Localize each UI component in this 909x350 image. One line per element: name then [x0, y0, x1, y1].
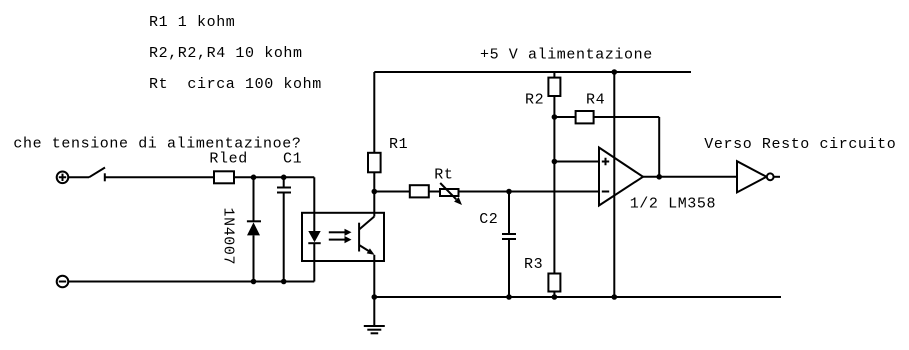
- svg-text:che tensione di alimentazinoe?: che tensione di alimentazinoe?: [13, 136, 301, 153]
- node dot top of C1: [281, 175, 287, 181]
- op-amp plus sign: [602, 158, 609, 165]
- wire R1 to node A: [373, 172, 375, 191]
- buffer U3 triangle: [737, 161, 767, 192]
- wire switch to Rled: [105, 176, 214, 178]
- svg-text:+5 V alimentazione: +5 V alimentazione: [480, 47, 653, 64]
- node A dot: [372, 189, 378, 195]
- terminal - input: [57, 276, 69, 288]
- resistor Rt arrow: [440, 183, 462, 205]
- wire to optocoupler LED anode: [313, 177, 315, 231]
- resistor R2: [548, 72, 560, 117]
- svg-text:R2: R2: [525, 92, 544, 109]
- node dot supply top: [612, 69, 618, 75]
- wire collector to node: [373, 192, 375, 217]
- resistor R4: [554, 111, 659, 177]
- diode D1 branch wire: [253, 177, 255, 221]
- node dot supply bottom: [612, 294, 618, 300]
- wire rail down to R1: [373, 72, 375, 153]
- capacitor C1: [277, 177, 291, 281]
- wire bottom left rail: [68, 281, 314, 283]
- capacitor C2: [502, 192, 516, 298]
- terminal + input: [57, 172, 69, 184]
- svg-text:C2: C2: [479, 211, 498, 228]
- optocoupler light arrow 2: [329, 236, 352, 243]
- svg-text:R3: R3: [524, 256, 543, 273]
- svg-text:R1 1 kohm: R1 1 kohm: [149, 14, 235, 31]
- wire buffer output stub: [774, 176, 780, 178]
- resistor R1: [368, 153, 381, 173]
- op-amp minus sign: [602, 191, 609, 193]
- node dot Rt/C2: [506, 189, 512, 195]
- svg-text:R2,R2,R4 10 kohm: R2,R2,R4 10 kohm: [149, 45, 303, 62]
- svg-text:Rt: Rt: [434, 166, 453, 183]
- node dot plus input: [552, 159, 558, 165]
- node dot bottom of C1: [281, 279, 287, 285]
- node dot R3 bottom: [552, 294, 558, 300]
- switch S1: [68, 168, 105, 182]
- svg-text:Verso Resto circuito: Verso Resto circuito: [704, 136, 896, 153]
- bottom ground rail: [374, 296, 781, 298]
- optocoupler LED: [308, 231, 320, 243]
- buffer inversion bubble: [767, 173, 774, 180]
- node dot C2 bottom: [506, 294, 512, 300]
- diode D1 1N4007: [247, 221, 261, 281]
- svg-text:1/2 LM358: 1/2 LM358: [630, 196, 716, 213]
- svg-text:C1: C1: [283, 151, 302, 168]
- wire op-amp output: [643, 176, 737, 178]
- svg-text:1N4007: 1N4007: [220, 208, 237, 266]
- wire emitter to bottom rail: [373, 255, 375, 297]
- +5V top rail: [374, 71, 691, 73]
- wire op-amp supply vertical: [613, 72, 615, 297]
- resistor Rled: [214, 171, 234, 183]
- resistor Rt fixed box: [410, 185, 429, 197]
- node dot emitter/ground: [372, 294, 378, 300]
- op-amp U1 triangle: [599, 148, 643, 206]
- resistor Rt variable box: [440, 189, 459, 196]
- wire mid vertical R2 to R3: [553, 117, 555, 274]
- node dot bottom of D1: [251, 279, 257, 285]
- svg-text:R1: R1: [389, 136, 408, 153]
- svg-text:R4: R4: [586, 92, 605, 109]
- optocoupler phototransistor Q1: [359, 217, 375, 255]
- node dot top of D1: [251, 175, 257, 181]
- wire to op-amp plus input: [554, 161, 599, 163]
- wire node A to op-amp minus input: [374, 191, 599, 193]
- optocoupler U2 box: [302, 213, 384, 261]
- svg-text:Rt circa 100 kohm: Rt circa 100 kohm: [149, 76, 322, 93]
- optocoupler light arrow 1: [329, 229, 352, 236]
- node dot R2 bottom: [552, 114, 558, 120]
- ground symbol: [364, 297, 385, 333]
- resistor R3: [548, 274, 560, 298]
- wire Rled to C1 corner: [234, 176, 314, 178]
- svg-text:Rled: Rled: [209, 151, 247, 168]
- node dot output/R4: [656, 174, 662, 180]
- wire optocoupler LED cathode down: [313, 243, 315, 281]
